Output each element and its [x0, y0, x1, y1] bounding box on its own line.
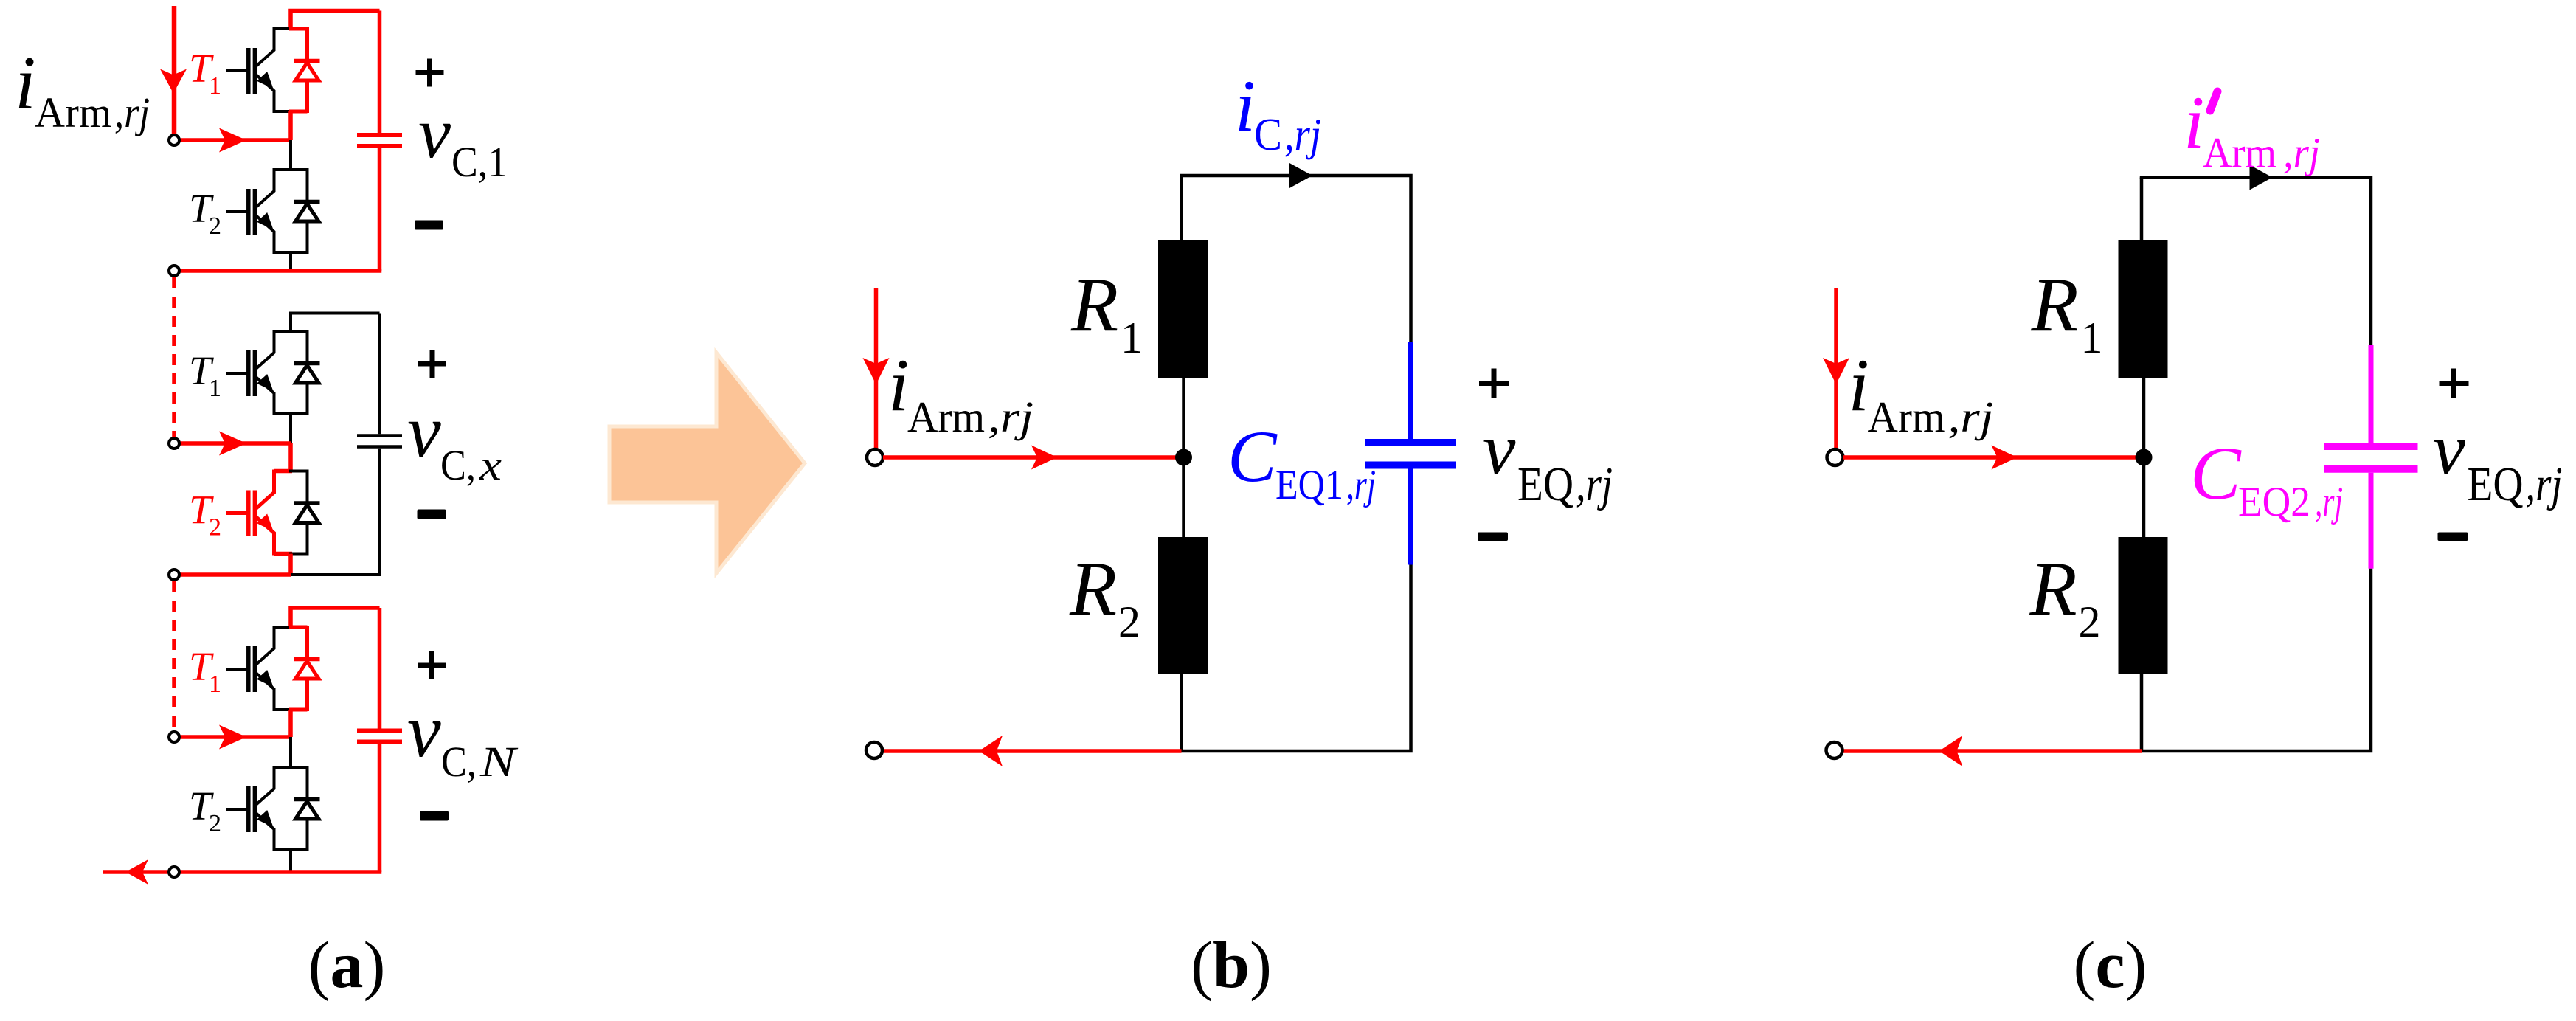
arrow output current left (b)	[979, 736, 1003, 766]
node junction SM2-SM3	[169, 570, 179, 580]
wire R1 bottom lead (b)	[1182, 378, 1185, 457]
wire SM2 T1 emitter to mid node	[289, 414, 292, 443]
label − polarity (c)	[2438, 533, 2468, 541]
wire SM2 input (red)	[179, 441, 291, 446]
diode of T2 (SM1)	[289, 168, 320, 254]
capacitor C_EQ1,rj (b)	[1365, 342, 1456, 565]
wire R1 top lead (b)	[1180, 176, 1183, 240]
node output terminal (a)	[169, 867, 179, 877]
wire top loop (b)	[1182, 176, 1411, 398]
wire SM2 bottom rail left (red)	[177, 572, 291, 577]
capacitor v_C,x (SM2)	[357, 314, 402, 575]
transistor T2 (SM1)	[226, 168, 292, 254]
svg-text:(a): (a)	[308, 929, 386, 1002]
wire right rail lower (b)	[1182, 565, 1411, 752]
wire input to divider node (red) (c)	[1843, 455, 2144, 460]
arrow input current down (c)	[1823, 358, 1849, 384]
wire R1 bottom lead (c)	[2142, 378, 2146, 457]
arrow i_Arm,rj input current (down)	[160, 69, 187, 94]
label + polarity (b)	[1479, 369, 1509, 398]
arrow output current (left)	[125, 859, 148, 885]
wire SM2 T2 emitter to bottom rail	[288, 554, 293, 575]
diode of T2 (SM3)	[289, 766, 320, 851]
wire SM3 T2 emitter to bottom rail	[289, 850, 292, 872]
wire output return (red) (b)	[882, 749, 1182, 753]
node SM3 input terminal	[169, 732, 179, 742]
resistor R1 (b)	[1158, 240, 1208, 378]
node junction SM1-SM2	[169, 266, 179, 276]
capacitor C_EQ2,rj (c)	[2324, 345, 2418, 569]
wire SM1 bottom rail (red)	[177, 269, 381, 273]
svg-text:(c): (c)	[2074, 929, 2147, 1002]
wire R2 bottom lead (c)	[2140, 674, 2144, 751]
label + polarity (c)	[2440, 369, 2469, 398]
arrow input current down (b)	[863, 358, 890, 384]
wire SM3 T1 emitter to mid node	[288, 710, 293, 737]
wire SM1 input (red)	[179, 138, 291, 142]
arrow output current left (c)	[1939, 736, 1963, 766]
transistor T1 (SM3)	[226, 626, 292, 711]
label − polarity (b)	[1478, 533, 1508, 541]
arrow loop current (c)	[2250, 165, 2273, 190]
wire SM2 top rail	[291, 314, 380, 332]
wire top loop (c)	[2142, 178, 2371, 403]
wire R2 top lead (c)	[2142, 457, 2146, 537]
resistor R2 (b)	[1158, 537, 1208, 674]
label + polarity (SM3, v_C,N)	[418, 651, 446, 679]
wire R1 top lead (c)	[2140, 178, 2144, 240]
svg-text:(b): (b)	[1191, 929, 1272, 1002]
transistor T2 (SM2)	[226, 470, 292, 556]
node divider junction dot (c)	[2136, 449, 2153, 466]
wire input i_Arm,rj vertical (red) (b)	[874, 288, 879, 449]
wire SM1 T2 emitter to bottom rail	[289, 252, 292, 271]
wire SM1 T1 emitter to mid node	[288, 111, 293, 140]
capacitor v_C,N (SM3)	[357, 608, 402, 872]
node SM1 input terminal	[169, 135, 179, 145]
transistor T2 (SM3)	[226, 766, 292, 851]
diode of T1 (SM2)	[289, 330, 320, 415]
wire dashed link SM1-SM2 (red)	[172, 277, 176, 438]
arrow loop current (b)	[1289, 163, 1312, 188]
node output terminal (c)	[1827, 742, 1843, 758]
arrow SM3 input current	[219, 725, 246, 750]
wire SM3 mid node to T2 collector	[289, 737, 292, 767]
node divider junction dot (b)	[1175, 449, 1192, 466]
arrow SM1 input current	[219, 128, 246, 153]
wire SM2 mid node to T2 collector	[288, 443, 293, 471]
wire R2 bottom lead (b)	[1180, 674, 1183, 751]
diode of T1 (SM3)	[289, 626, 320, 711]
diode of T1 (SM1)	[289, 27, 320, 113]
arrow input current right (b)	[1031, 446, 1057, 470]
label − polarity (SM1, v_C,1)	[415, 221, 443, 230]
label − polarity (SM2, v_C,x)	[418, 510, 446, 519]
transistor T1 (SM1)	[226, 27, 292, 113]
arrow equivalence (orange block arrow)	[609, 353, 805, 573]
transistor T1 (SM2)	[226, 330, 292, 415]
wire arm current output (red)	[103, 870, 170, 874]
node input terminal (b)	[867, 449, 883, 465]
arrow SM2 input current	[219, 432, 246, 456]
wire input to divider node (red) (b)	[883, 455, 1184, 460]
node output terminal (b)	[866, 742, 882, 758]
resistor R2 (c)	[2119, 537, 2168, 674]
wire R2 top lead (b)	[1182, 457, 1185, 537]
wire SM3 input (red)	[179, 735, 291, 739]
label − polarity (SM3, v_C,N)	[420, 811, 449, 821]
wire SM2 bottom rail right	[291, 573, 381, 576]
node input terminal (c)	[1827, 449, 1843, 465]
wire arm current input (red, vertical)	[172, 6, 177, 135]
wire input i_Arm,rj vertical (red) (c)	[1834, 288, 1838, 449]
wire SM1 mid node to T2 collector	[289, 140, 292, 170]
label + polarity (SM1, v_C,1)	[416, 59, 444, 87]
diode of T2 (SM2)	[289, 470, 320, 556]
wire right rail lower (c)	[2142, 569, 2371, 751]
wire dashed link SM2-SM3 (red)	[172, 581, 176, 727]
capacitor v_C,1 (SM1)	[357, 11, 402, 271]
wire output return (red) (c)	[1843, 749, 2142, 753]
label + polarity (SM2, v_C,x)	[418, 350, 446, 378]
wire SM1 top rail	[291, 11, 380, 30]
wire SM3 top rail	[291, 608, 380, 627]
arrow input current right (c)	[1992, 446, 2018, 470]
resistor R1 (c)	[2119, 240, 2168, 378]
node SM2 input terminal	[169, 438, 179, 449]
wire SM3 bottom rail (red)	[177, 870, 381, 874]
